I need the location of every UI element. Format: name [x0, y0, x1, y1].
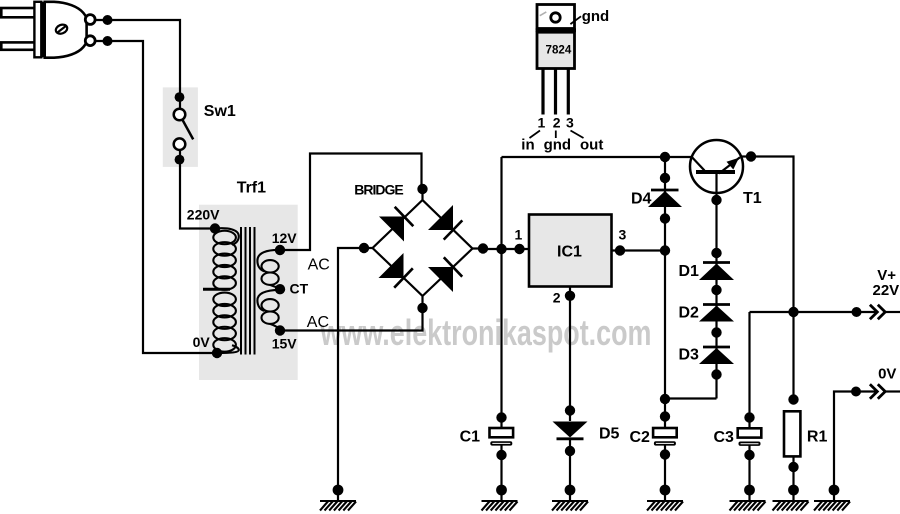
label 0V output — [878, 365, 896, 382]
bridge diode upper-right — [428, 205, 462, 240]
svg-text:D1: D1 — [679, 263, 700, 280]
diode D3 — [699, 347, 734, 364]
svg-text:3: 3 — [566, 115, 574, 131]
label Trf1 — [237, 180, 266, 197]
svg-text:R1: R1 — [807, 428, 828, 445]
svg-text:7824: 7824 — [546, 44, 572, 57]
transformer Trf1 background box — [199, 205, 298, 380]
node ground C1 — [496, 485, 507, 496]
node bridge top — [417, 184, 427, 194]
node C1 bottom — [496, 450, 506, 460]
label AC bottom — [307, 314, 329, 331]
wire D5 to ground — [569, 439, 571, 500]
output chevron V+ — [870, 305, 885, 320]
label 220V — [187, 207, 220, 223]
node Sw1 top — [175, 92, 185, 102]
svg-text:AC: AC — [308, 256, 330, 273]
diode D4 — [648, 190, 682, 207]
node C3 top — [744, 412, 754, 422]
bridge diode lower-left — [379, 253, 413, 288]
label V+ — [877, 267, 896, 284]
bridge diode upper-left — [379, 207, 413, 242]
svg-text:3: 3 — [619, 227, 627, 243]
wire V+ line from C3 branch to output — [750, 311, 877, 313]
wire T1 emitter to right rail corner — [741, 157, 794, 400]
node bridge left — [359, 243, 369, 253]
wire T1 base down through D1 D2 D3 — [715, 174, 717, 399]
label 15V — [272, 335, 298, 351]
label C3 — [714, 429, 735, 446]
node IC1 pin 3 — [615, 245, 625, 255]
watermark www.elektronikaspot.com — [320, 312, 652, 353]
node D1 top — [711, 248, 721, 258]
svg-text:2: 2 — [553, 290, 561, 306]
label in — [521, 136, 534, 153]
svg-text:220V: 220V — [187, 207, 220, 223]
node C1 top — [496, 412, 506, 422]
wire 15V to bridge bottom — [280, 308, 423, 331]
wire riser x=501 down to C1 — [500, 157, 502, 428]
node T1 base — [711, 195, 721, 205]
resistor R1 — [784, 411, 800, 456]
node T1 emitter — [746, 151, 756, 161]
node 220V — [210, 223, 220, 233]
node D4 top — [660, 173, 670, 183]
svg-text:IC1: IC1 — [557, 244, 582, 261]
node IC1 pin 1 — [514, 244, 524, 254]
node D2-D3 — [711, 327, 721, 337]
wire V+ after chevron to edge — [885, 311, 900, 313]
svg-text:out: out — [580, 136, 603, 153]
node ground transformer — [333, 485, 344, 496]
node CT — [275, 284, 285, 294]
svg-text:0V: 0V — [878, 365, 896, 382]
svg-text:1: 1 — [515, 227, 523, 243]
label out — [580, 136, 603, 153]
label D1 — [679, 263, 700, 280]
label C2 — [630, 429, 651, 446]
svg-text:BRIDGE: BRIDGE — [354, 182, 403, 198]
svg-text:Trf1: Trf1 — [237, 180, 266, 197]
wire top rail node down through D4 and pin3 node to C2 — [664, 157, 666, 429]
svg-text:www.elektronikaspot.com: www.elektronikaspot.com — [320, 312, 652, 353]
svg-text:22V: 22V — [873, 282, 900, 299]
node 15V — [275, 325, 285, 335]
node ground C3 — [744, 485, 755, 496]
mains plug — [1, 2, 95, 58]
svg-text:AC: AC — [307, 314, 329, 331]
capacitor C1 — [490, 428, 514, 446]
label gnd pin — [544, 136, 572, 153]
label pin 3 — [619, 227, 627, 243]
node 12V — [275, 245, 285, 255]
diode D2 — [699, 305, 734, 322]
output chevron 0V — [870, 384, 885, 399]
bridge diode lower-right — [428, 257, 462, 292]
wire 0V after chevron to edge — [885, 390, 900, 392]
svg-text:T1: T1 — [743, 190, 762, 207]
svg-text:C1: C1 — [460, 428, 481, 445]
node R1 top — [788, 394, 798, 404]
label T1 — [743, 190, 762, 207]
node C2 bottom — [660, 449, 670, 459]
label pkg pin 3 — [566, 115, 574, 131]
node riser junction pin1 — [496, 244, 506, 254]
node C2 top — [660, 411, 670, 421]
transformer Trf1 primary winding — [213, 228, 239, 353]
wire plug top terminal to Sw1 — [95, 20, 180, 97]
wire Sw1 to 220V primary — [180, 161, 215, 229]
svg-text:12V: 12V — [272, 230, 298, 246]
wire IC1 pin 2 down to D5 — [569, 287, 571, 422]
transformer secondary winding — [257, 250, 280, 331]
node V+ rail junction — [788, 307, 798, 317]
node bridge right — [478, 243, 488, 253]
label Sw1 — [204, 103, 236, 120]
capacitor C2 — [653, 428, 677, 446]
switch Sw1 — [174, 97, 194, 161]
ground symbol (transformer) — [320, 501, 356, 511]
svg-text:in: in — [521, 136, 534, 153]
svg-text:D5: D5 — [599, 425, 620, 442]
node IC1 pin 2 — [565, 291, 575, 301]
wire C3 to ground — [748, 445, 750, 500]
label pkg pin 1 — [538, 115, 546, 131]
node D1-D2 — [711, 285, 721, 295]
node D4 bottom — [660, 213, 670, 223]
svg-text:C2: C2 — [630, 429, 651, 446]
wire plug bottom terminal to 0V primary — [95, 41, 217, 353]
wire R1 bottom to ground — [792, 457, 794, 501]
switch Sw1 background box — [163, 87, 198, 166]
label D4 — [631, 191, 652, 208]
node ground R1 — [788, 485, 799, 496]
ground symbol (C2) — [647, 501, 683, 511]
node plug bottom — [103, 36, 113, 46]
7824 package drawing — [536, 5, 576, 115]
wire C1 to ground — [500, 445, 502, 500]
ground symbol (C1) — [482, 501, 518, 511]
node 0V primary — [212, 348, 222, 358]
node bridge bottom — [417, 303, 427, 313]
label D2 — [679, 305, 700, 322]
wire 12V to bridge top — [280, 154, 422, 251]
transistor T1 — [690, 140, 743, 193]
label D5 — [599, 425, 620, 442]
7824 pin leader lines — [530, 16, 584, 138]
node D5 top — [565, 405, 575, 415]
label CT — [290, 281, 309, 297]
node ground 0V — [829, 485, 840, 496]
label 12V — [272, 230, 298, 246]
node D5 bottom — [565, 446, 575, 456]
node plug top — [103, 15, 113, 25]
wire C3 branch down — [748, 312, 750, 429]
wire C2 to ground — [664, 445, 666, 501]
label 22V — [873, 282, 900, 299]
label pin 1 — [515, 227, 523, 243]
svg-text:1: 1 — [538, 115, 546, 131]
svg-text:D2: D2 — [679, 305, 700, 322]
label pkg pin 2 — [553, 115, 561, 131]
diode D5 — [553, 422, 588, 439]
wire top rail from riser to T1 collector — [502, 156, 692, 158]
label IC1 — [557, 244, 582, 261]
svg-text:15V: 15V — [272, 335, 298, 351]
svg-text:C3: C3 — [714, 429, 735, 446]
svg-text:D3: D3 — [679, 347, 700, 364]
wire bridge right to IC1 pin 1 — [483, 248, 529, 250]
regulator IC1 box — [529, 215, 612, 287]
svg-text:gnd: gnd — [544, 136, 572, 153]
label AC top — [308, 256, 330, 273]
label gnd tab — [582, 8, 610, 25]
label pin 2 — [553, 290, 561, 306]
wire D3 bottom to C2 node — [665, 397, 717, 399]
label 7824 — [546, 44, 572, 57]
capacitor C3 — [738, 428, 762, 446]
diode D1 — [699, 263, 734, 281]
node ground D5 — [565, 485, 576, 496]
ground symbol (C3) — [730, 501, 766, 511]
transformer primary tap mark — [203, 288, 230, 291]
svg-text:Sw1: Sw1 — [204, 103, 236, 120]
svg-text:2: 2 — [553, 115, 561, 131]
transformer core — [241, 227, 255, 355]
node D3 bottom — [711, 369, 721, 379]
node 0V output — [851, 387, 861, 397]
wire IC1 pin 3 to D4 node — [612, 249, 666, 251]
label 0V primary — [193, 334, 211, 350]
node rail-D4 — [660, 152, 670, 162]
label BRIDGE — [354, 182, 403, 198]
svg-text:D4: D4 — [631, 191, 652, 208]
svg-text:CT: CT — [290, 281, 309, 297]
node C3 bottom — [744, 450, 754, 460]
node R1 bottom — [788, 462, 798, 472]
ground symbol (R1) — [773, 501, 809, 511]
node ground C2 — [660, 485, 671, 496]
node Sw1 bottom — [175, 155, 185, 165]
bridge rectifier diamond — [364, 189, 483, 308]
ground symbol (0V) — [814, 501, 850, 511]
svg-text:gnd: gnd — [582, 8, 610, 25]
wire bridge left to ground — [338, 248, 364, 500]
label C1 — [460, 428, 481, 445]
ground symbol (D5) — [552, 501, 588, 511]
node pin3-D4 junction — [660, 245, 670, 255]
svg-text:0V: 0V — [193, 334, 211, 350]
label D3 — [679, 347, 700, 364]
wire 0V output line — [834, 392, 877, 501]
label R1 — [807, 428, 828, 445]
node V+ output — [852, 307, 862, 317]
node C2-D3 junction — [660, 394, 670, 404]
